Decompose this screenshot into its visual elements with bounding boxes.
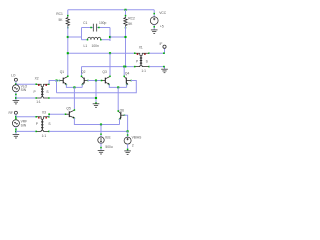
transformer X2 [35, 83, 49, 98]
current source IEE [98, 137, 104, 143]
svg-text:X1: X1 [139, 46, 143, 50]
svg-text:Q4: Q4 [125, 71, 130, 75]
node VBIAS bottom pin [127, 149, 129, 151]
wire VBIAS bottom stub [127, 144, 129, 151]
svg-text:LO: LO [11, 74, 16, 78]
svg-text:100p: 100p [99, 21, 107, 25]
node tank right junction [109, 36, 111, 38]
wire VLO- to X2 [16, 97, 36, 99]
svg-text:RC2: RC2 [128, 17, 135, 21]
wire tank bottom side [82, 39, 88, 41]
svg-text:1:1: 1:1 [42, 134, 47, 138]
node RC2 rail junction [124, 9, 126, 11]
node IEE bottom pin [100, 147, 102, 149]
transformer X1 [134, 52, 150, 67]
node VRF bottom pin [15, 128, 17, 130]
svg-text:RC1: RC1 [56, 12, 63, 16]
node LO- rail junction [95, 97, 97, 99]
wire Q2 emitter drop [81, 84, 83, 87]
node IEE top pin [100, 133, 102, 135]
node A left junction [67, 52, 69, 54]
ground IF [161, 69, 168, 73]
wire tank left edge [81, 28, 83, 40]
node LO ground junction [15, 97, 17, 99]
node RF ground junction [15, 131, 17, 133]
node IF wire pin [163, 52, 165, 54]
node IF ground pin [163, 66, 165, 68]
node IEE junction [100, 123, 102, 125]
wire X3 secondary riser to Q5 base [49, 114, 66, 117]
svg-text:X3: X3 [42, 111, 46, 115]
svg-text:2: 2 [132, 144, 134, 148]
svg-text:RF: RF [8, 111, 12, 115]
transistor Q1 [59, 76, 69, 86]
ground VBIAS [124, 151, 131, 155]
svg-text:VCC: VCC [159, 11, 167, 15]
wire X1 secondary to IF port [149, 49, 164, 54]
node LO+ junction [55, 79, 57, 81]
svg-text:VBIAS: VBIAS [132, 136, 143, 140]
svg-text:IF: IF [160, 42, 163, 46]
wire LO+ to X2 [16, 83, 36, 85]
svg-text:100n: 100n [92, 44, 100, 48]
transistor Q3 [101, 76, 111, 86]
node mid ground stub [95, 102, 97, 104]
port IF [163, 45, 166, 48]
transistor Q2 [81, 76, 89, 86]
wire RC2 column down to node B [125, 27, 127, 67]
source VCC [150, 17, 158, 25]
ground LO [13, 100, 20, 104]
wire VBIAS rail from X3 [49, 130, 128, 132]
transistor Q5 [65, 109, 75, 119]
svg-text:IEE: IEE [105, 135, 111, 139]
node RF junction [15, 116, 17, 118]
port RF [14, 111, 17, 114]
ground IEE [98, 151, 105, 155]
wire Q1 emitter to rail [66, 84, 82, 87]
resistor RC2 [124, 15, 127, 29]
wire LO+ to Q1 base [49, 80, 60, 82]
ground mid [93, 104, 100, 108]
wire Q6 emitter drop [119, 119, 121, 125]
wire VLO bottom stub [15, 92, 17, 100]
node VBIAS junction [127, 130, 129, 132]
wire VCC bottom stub [153, 25, 155, 30]
node first pair emitter junction [73, 86, 75, 88]
wire node B rail [82, 66, 135, 68]
node VRF top pin [15, 118, 16, 119]
transistor Q4 [123, 76, 132, 86]
wire Q4 emitter drop [126, 84, 128, 87]
svg-text:500u: 500u [105, 145, 113, 149]
wire top VCC rail [68, 9, 154, 11]
source VBIAS [124, 137, 131, 144]
wire tank top side [82, 27, 94, 29]
wire Q6 collector riser [117, 87, 119, 111]
wire Q3 collector riser [109, 53, 111, 76]
svg-text:1:1: 1:1 [36, 100, 41, 104]
svg-text:Q2: Q2 [81, 70, 86, 74]
wire IEE stub [100, 125, 102, 138]
node B RC2 junction [125, 66, 127, 68]
node VCC top pin [153, 13, 155, 15]
node A Q3 junction [109, 52, 111, 54]
wire Q3 emitter to rail [109, 84, 126, 87]
wire IEE bottom stub [100, 143, 102, 150]
wire RC1 top stub [67, 10, 69, 17]
source VRF [12, 120, 19, 127]
svg-text:Q3: Q3 [102, 70, 107, 74]
svg-text:C1: C1 [83, 21, 87, 25]
wire Q5 emitter drop to rail [74, 118, 119, 125]
resistor RC1 [66, 15, 69, 29]
node B Q4 junction [123, 66, 125, 68]
wire VRF- to X3 [16, 130, 36, 132]
wire Q4 collector riser [123, 67, 125, 77]
wire RC1 bottom to Q1 collector [67, 27, 69, 77]
svg-text:Q1: Q1 [60, 70, 65, 74]
node LO junction [15, 83, 17, 85]
wire Q2 base to Q3 base [88, 80, 102, 82]
svg-text:1:1: 1:1 [141, 69, 146, 73]
wire VRF bottom stub [15, 127, 17, 135]
node LO- junction [95, 79, 97, 81]
svg-text:L1: L1 [84, 44, 88, 48]
source VLO [12, 85, 19, 92]
ground RF [13, 135, 20, 139]
wire X2 secondary riser to Q1 [49, 81, 56, 85]
wire LO- rail [49, 97, 96, 99]
svg-text:Q5: Q5 [66, 107, 71, 111]
wire Q6 base to VBIAS column [124, 115, 128, 131]
transformer X3 [35, 116, 49, 132]
wire node A rail [68, 52, 135, 54]
wire Q4 base loop down to LO+ rail [57, 81, 137, 93]
node VCC bottom pin [153, 26, 155, 28]
svg-text:+5: +5 [160, 24, 164, 28]
wire X1 secondary bottom to ground [149, 67, 164, 69]
node VLO bottom pin [15, 94, 17, 96]
transistor Q6 [117, 110, 125, 120]
node RC2 tank junction [124, 36, 126, 38]
node VBIAS top pin [127, 134, 129, 136]
wire VBIAS stub [127, 131, 129, 137]
wire RC2 top stub [125, 10, 127, 17]
svg-text:X2: X2 [35, 76, 39, 80]
wire RF stub [15, 114, 17, 120]
wire tank exit to RC2 column [110, 36, 126, 38]
ground VCC [151, 30, 158, 34]
wire RF to X3 [16, 116, 36, 118]
inductor L1 [87, 37, 102, 40]
svg-text:Q6: Q6 [120, 109, 125, 113]
wire LO- drop to ground [95, 81, 97, 104]
wire tank left entry [68, 36, 82, 38]
node tank left junction [67, 36, 69, 38]
wire Q5 collector riser [73, 87, 75, 110]
wire LO+ drop [56, 81, 58, 93]
port LO [14, 78, 17, 81]
wire VCC stub [153, 10, 155, 17]
wire Q2 collector riser [81, 67, 83, 77]
node second pair emitter junction [117, 86, 119, 88]
node X3 riser corner [48, 113, 50, 115]
capacitor C1 [90, 24, 99, 32]
svg-text:SIN: SIN [21, 124, 27, 128]
wire tank right edge [109, 28, 111, 42]
svg-text:SIN: SIN [21, 88, 27, 92]
wire LO stub [15, 81, 17, 85]
